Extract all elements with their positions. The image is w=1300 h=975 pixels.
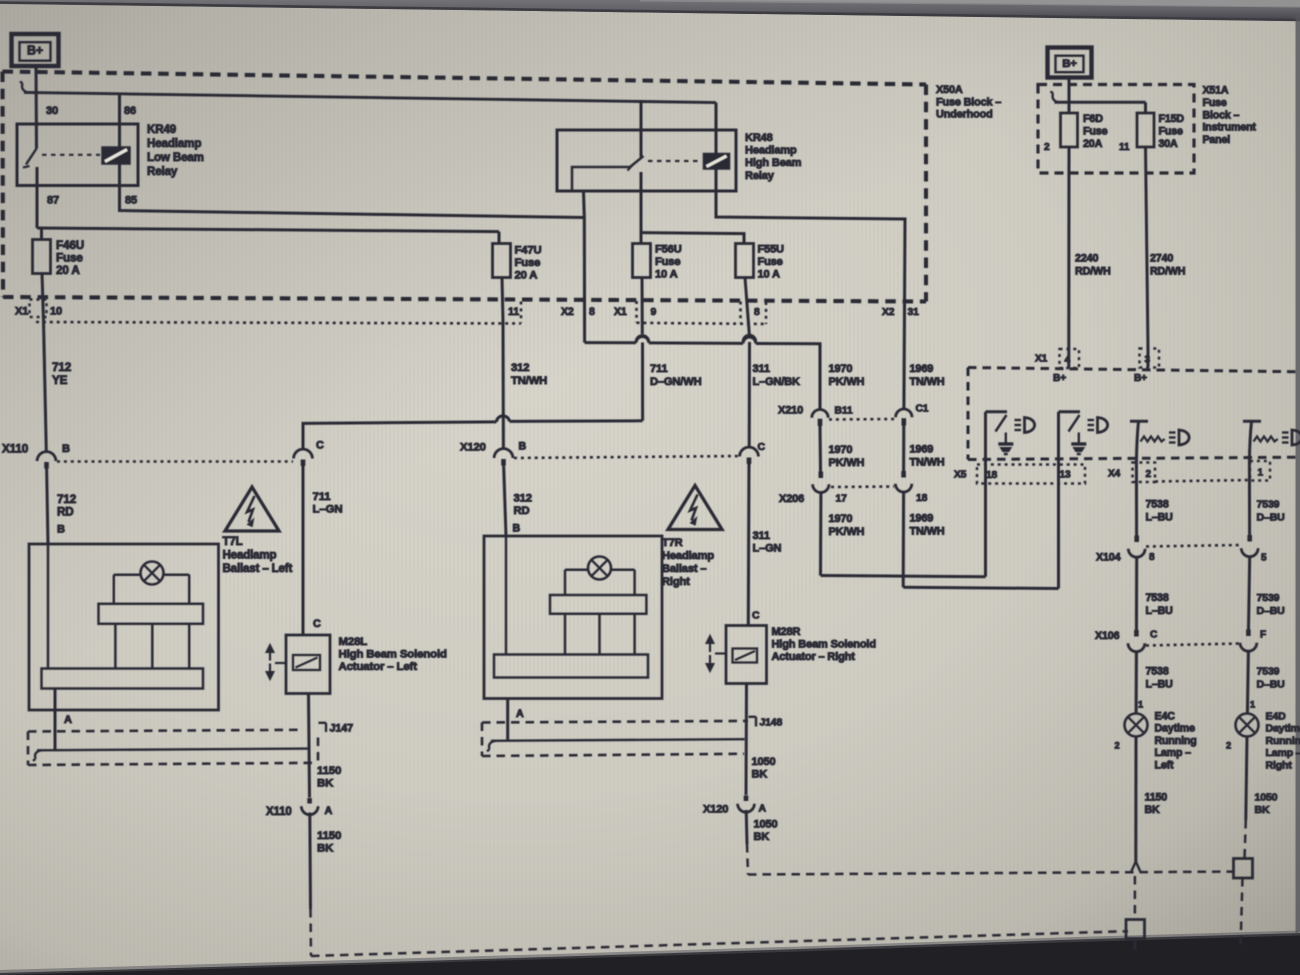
KR48 switched output wire (640, 172, 643, 244)
KR49 coil link dashes (42, 154, 100, 156)
T7R bulb base bar (494, 655, 648, 678)
KR48 coil return wire to X2-31 (716, 169, 905, 409)
wire: fuse feed to F55U (641, 233, 744, 244)
wire 712 RD (47, 467, 48, 544)
svg-text:1150: 1150 (317, 830, 341, 842)
svg-text:F56U: F56U (655, 244, 682, 256)
svg-text:C: C (316, 440, 324, 452)
svg-text:86: 86 (124, 105, 136, 117)
svg-text:X51A: X51A (1203, 85, 1229, 97)
T7L bulb neck (114, 573, 141, 576)
svg-text:A: A (325, 805, 333, 817)
svg-text:Relay: Relay (147, 165, 178, 178)
wire: B+ feed bus with hook (20, 81, 29, 92)
svg-text:X210: X210 (778, 405, 803, 417)
svg-text:1050: 1050 (752, 756, 776, 768)
T7L headlamp ballast left: box (29, 544, 219, 710)
wire 7539 D-BU upper (1248, 461, 1251, 541)
svg-text:BK: BK (1255, 804, 1270, 816)
svg-text:B+: B+ (1053, 373, 1066, 384)
svg-text:F47U: F47U (515, 245, 542, 257)
svg-text:Relay: Relay (745, 170, 775, 182)
svg-text:High Beam: High Beam (745, 157, 802, 169)
svg-text:8: 8 (754, 307, 760, 318)
T7R bulb neck (565, 568, 589, 571)
wire 312 RD (504, 464, 506, 536)
wire: B+ down to relay KR49 pin 30 (35, 66, 39, 149)
svg-text:Fuse: Fuse (1203, 97, 1227, 109)
svg-text:B: B (57, 524, 65, 536)
wire 1969 TN/WH middle (902, 426, 905, 477)
connector X120 pin A (744, 796, 749, 802)
svg-text:2: 2 (1115, 741, 1120, 751)
svg-text:X1: X1 (614, 306, 627, 318)
dashed ground routing to E4C splice (311, 931, 1128, 956)
svg-text:RD: RD (514, 505, 530, 517)
svg-text:1: 1 (1138, 700, 1143, 710)
svg-text:L–GN: L–GN (753, 543, 782, 555)
T7R headlamp ballast right: box (484, 536, 662, 699)
battery B+ terminal (right) (1048, 48, 1092, 78)
svg-text:85: 85 (125, 195, 137, 207)
wire 7539 D-BU middle (1248, 557, 1249, 636)
svg-text:E4C: E4C (1155, 711, 1176, 723)
svg-text:BK: BK (1145, 804, 1161, 816)
splice J148 (749, 716, 757, 718)
svg-text:TN/WH: TN/WH (910, 376, 945, 388)
M28L solenoid (293, 655, 320, 670)
M28R solenoid (733, 649, 758, 663)
M28L ground wire 1150 BK (309, 694, 310, 798)
svg-text:1050: 1050 (1255, 792, 1278, 804)
wire 311 L-GN/BK from X1-8 (743, 335, 756, 341)
wire 7538 L-BU upper (1135, 462, 1138, 541)
svg-text:1969: 1969 (910, 363, 934, 375)
KR49 pin 87 wire (36, 167, 39, 228)
svg-text:2: 2 (1044, 142, 1050, 153)
svg-text:Panel: Panel (1203, 134, 1231, 146)
svg-text:1: 1 (1258, 468, 1264, 479)
svg-text:F15D: F15D (1159, 113, 1185, 125)
module low beam driver left (984, 412, 987, 577)
fuse F15D 30A (1137, 113, 1154, 147)
fuse F6D 20A (1061, 113, 1078, 147)
svg-text:E4D: E4D (1266, 711, 1287, 723)
svg-text:X106: X106 (1095, 630, 1120, 642)
T7R internal feed wire (505, 536, 508, 655)
svg-text:712: 712 (57, 493, 77, 506)
KR48 coil link dashes (648, 160, 700, 162)
svg-text:Headlamp: Headlamp (223, 550, 277, 562)
svg-text:10 A: 10 A (758, 268, 780, 280)
svg-text:Fuse: Fuse (56, 251, 83, 264)
splice J147 (319, 722, 327, 724)
wire 1150 BK from E4C (1134, 737, 1137, 863)
svg-text:Fuse: Fuse (1083, 125, 1108, 137)
svg-text:Fuse: Fuse (1159, 125, 1183, 137)
svg-text:7538: 7538 (1146, 499, 1169, 511)
svg-text:D–BU: D–BU (1257, 605, 1285, 617)
fuse F55U 10A (736, 244, 754, 278)
svg-text:9: 9 (651, 306, 657, 318)
svg-text:B+: B+ (1134, 373, 1147, 384)
svg-text:A: A (516, 708, 524, 720)
svg-text:X120: X120 (703, 804, 728, 816)
svg-text:Running: Running (1266, 735, 1300, 747)
svg-text:87: 87 (47, 195, 59, 207)
svg-text:C1: C1 (916, 404, 929, 415)
svg-text:X4: X4 (1108, 469, 1121, 480)
svg-text:711: 711 (650, 363, 668, 375)
svg-text:TN/WH: TN/WH (910, 526, 945, 538)
M28L high beam solenoid actuator left: box (286, 635, 330, 694)
ground distribution dashed box left (28, 730, 299, 732)
M28L linkage arrow (269, 650, 271, 661)
M28R ground wire 1050 BK (745, 684, 749, 796)
T7L pin A wire (54, 689, 57, 750)
KR49 switch blade pin 30-87 (26, 149, 37, 165)
ground splice square S2 (1126, 920, 1145, 939)
svg-text:Actuator – Left: Actuator – Left (339, 661, 418, 673)
T7R bulb bar upper (550, 595, 646, 614)
X120 dotted pin link B-C (514, 456, 740, 458)
body control module dashed box (967, 368, 970, 460)
svg-text:1: 1 (1250, 700, 1255, 710)
svg-text:PK/WH: PK/WH (829, 376, 865, 388)
module low beam driver right (1057, 412, 1060, 589)
svg-text:Fuse: Fuse (515, 257, 541, 269)
svg-text:X1: X1 (1035, 354, 1048, 365)
ground distribution dashed box right (482, 721, 748, 723)
svg-text:X2: X2 (882, 307, 895, 318)
svg-text:712: 712 (52, 361, 72, 374)
T7L internal feed wire (47, 544, 50, 669)
svg-text:C: C (1150, 630, 1158, 641)
svg-text:C: C (758, 442, 766, 453)
wire 711 horizontal with hop over 312 (510, 419, 643, 423)
svg-text:YE: YE (52, 374, 68, 387)
KR48 switch blade (630, 156, 644, 167)
svg-text:High Beam Solenoid: High Beam Solenoid (772, 639, 876, 651)
wire from X2-8 with hops to 1970 PK/WH (583, 218, 586, 343)
relay KR49 box (17, 124, 138, 186)
svg-text:D–BU: D–BU (1257, 512, 1285, 524)
wire 2240 RD/WH (1067, 147, 1070, 349)
svg-text:X2: X2 (561, 306, 574, 318)
svg-text:18: 18 (986, 470, 998, 481)
svg-text:High Beam Solenoid: High Beam Solenoid (339, 649, 448, 661)
svg-text:11: 11 (508, 306, 519, 318)
wire 1970 to module X5-18 (821, 576, 986, 577)
svg-text:BK: BK (317, 777, 334, 789)
fuse block X51A: dashed border (1038, 85, 1194, 174)
svg-text:1970: 1970 (829, 363, 853, 375)
svg-text:KR48: KR48 (745, 132, 773, 144)
svg-text:311: 311 (753, 363, 770, 375)
svg-text:7539: 7539 (1257, 592, 1280, 604)
svg-text:1150: 1150 (1145, 792, 1168, 804)
svg-text:Ballast –: Ballast – (662, 563, 706, 575)
wire 7538 L-BU middle (1135, 557, 1138, 635)
svg-text:Fuse: Fuse (655, 256, 680, 268)
svg-text:Headlamp: Headlamp (147, 137, 201, 150)
svg-text:F46U: F46U (56, 239, 84, 252)
svg-text:M28R: M28R (772, 626, 801, 638)
svg-text:B: B (519, 441, 527, 453)
svg-text:L–BU: L–BU (1146, 679, 1174, 691)
KR48 coil (704, 154, 730, 170)
svg-text:Actuator – Right: Actuator – Right (772, 651, 856, 663)
svg-text:1050: 1050 (754, 819, 778, 831)
svg-text:X5: X5 (954, 470, 967, 481)
T7L bulb base bar (42, 669, 204, 689)
svg-text:17: 17 (836, 494, 848, 505)
KR48 lower pin wire to X2-8 (582, 191, 586, 218)
ground splice square S1 (1234, 859, 1253, 879)
svg-text:Right: Right (1266, 759, 1293, 771)
module DRL driver left (1130, 420, 1148, 423)
wire 1050 BK from E4D (1246, 737, 1247, 821)
svg-text:KR49: KR49 (147, 123, 177, 136)
svg-text:Lamp –: Lamp – (1266, 747, 1300, 759)
svg-text:BK: BK (754, 831, 770, 843)
svg-text:10 A: 10 A (655, 268, 678, 280)
svg-text:Running: Running (1155, 735, 1197, 747)
wire 1970 PK/WH middle (819, 426, 823, 477)
svg-text:11: 11 (1119, 142, 1130, 153)
svg-text:B+: B+ (27, 44, 43, 58)
svg-text:D–BU: D–BU (1257, 679, 1285, 691)
svg-text:X50A: X50A (936, 84, 963, 96)
wire 711 D-GN/WH from X1-9 (636, 335, 649, 341)
KR49 coil (102, 147, 130, 164)
svg-text:Underhood: Underhood (936, 109, 993, 121)
svg-text:2: 2 (1146, 469, 1152, 480)
svg-text:PK/WH: PK/WH (829, 457, 865, 469)
svg-text:A: A (759, 804, 767, 815)
svg-text:18: 18 (916, 493, 928, 504)
wire 1969 to module X5-13 (903, 587, 1058, 588)
svg-text:10: 10 (50, 306, 62, 318)
svg-text:Headlamp: Headlamp (745, 145, 797, 157)
svg-text:1150: 1150 (317, 765, 341, 777)
svg-text:Lamp –: Lamp – (1155, 747, 1192, 759)
svg-text:31: 31 (908, 307, 920, 318)
M28R high beam solenoid actuator right: box (726, 626, 767, 684)
svg-text:1969: 1969 (910, 444, 934, 456)
svg-text:F6D: F6D (1083, 113, 1103, 125)
svg-text:Headlamp: Headlamp (662, 550, 714, 562)
svg-text:Fuse: Fuse (758, 256, 783, 268)
dashed ground stub to splice square (1134, 876, 1137, 920)
KR48 coil feed wire (715, 103, 718, 154)
svg-text:30: 30 (46, 105, 58, 117)
svg-text:20 A: 20 A (56, 264, 80, 277)
svg-text:RD/WH: RD/WH (1150, 266, 1185, 278)
svg-text:X110: X110 (266, 806, 292, 818)
ground splice arrow E4C (1131, 862, 1140, 872)
svg-text:C: C (313, 618, 321, 630)
svg-text:312: 312 (511, 362, 529, 374)
svg-text:L–BU: L–BU (1146, 512, 1174, 524)
T7R pin A wire (506, 699, 509, 741)
svg-text:13: 13 (1060, 470, 1072, 481)
svg-text:8: 8 (1149, 552, 1155, 563)
svg-text:TN/WH: TN/WH (910, 457, 945, 469)
dashed ground below S1 (1241, 878, 1243, 948)
svg-text:1969: 1969 (910, 513, 934, 525)
svg-text:X104: X104 (1096, 552, 1121, 564)
T7R lamp (588, 557, 611, 580)
svg-text:311: 311 (753, 530, 770, 542)
T7L bulb bar upper (99, 604, 204, 624)
fuse F56U 10A (633, 244, 651, 278)
svg-text:M28L: M28L (339, 636, 368, 648)
svg-text:L–BU: L–BU (1146, 605, 1174, 617)
svg-text:B+: B+ (1062, 58, 1077, 70)
connector X1 pins 10-11 dotted row (36, 322, 521, 324)
svg-text:Ballast – Left: Ballast – Left (223, 563, 293, 575)
svg-text:L–GN/BK: L–GN/BK (753, 376, 801, 388)
svg-text:7538: 7538 (1146, 592, 1169, 604)
wire 7538 L-BU lower (1135, 652, 1138, 714)
svg-text:TN/WH: TN/WH (511, 375, 547, 387)
svg-text:Block –: Block – (1203, 109, 1240, 121)
dashed ground routing to E4D (748, 872, 1233, 875)
wire 1970 PK/WH lower (819, 493, 822, 576)
T7R warning triangle (668, 486, 722, 530)
svg-text:L–GN: L–GN (313, 504, 343, 516)
fuse F46U 20A (37, 228, 499, 232)
svg-text:F55U: F55U (758, 244, 785, 256)
svg-text:30A: 30A (1159, 138, 1179, 150)
X110 dotted pin link B-C (57, 460, 293, 463)
KR49 pin 86 wire (118, 94, 121, 147)
svg-text:7539: 7539 (1257, 499, 1280, 511)
wire 7539 D-BU lower (1247, 651, 1248, 714)
KR49 pin 85 wire down and right (120, 164, 585, 218)
T7L warning triangle (225, 487, 279, 531)
svg-text:312: 312 (514, 493, 532, 505)
svg-text:Left: Left (1155, 759, 1175, 771)
connector X1 pins 9-8 dotted row (635, 301, 638, 323)
svg-text:RD/WH: RD/WH (1075, 266, 1111, 278)
svg-text:2: 2 (1226, 741, 1231, 751)
M28R linkage arrow (709, 641, 711, 652)
svg-text:20 A: 20 A (515, 269, 538, 281)
svg-text:RD: RD (57, 506, 74, 519)
svg-text:Low Beam: Low Beam (147, 151, 204, 164)
svg-text:8: 8 (589, 306, 595, 318)
svg-text:Daytime: Daytime (1155, 723, 1196, 735)
svg-text:T7R: T7R (662, 537, 683, 549)
svg-text:20A: 20A (1083, 138, 1103, 150)
fuse F47U 20A (498, 232, 501, 244)
wire 2740 RD/WH (1146, 147, 1149, 349)
svg-text:C: C (752, 611, 760, 622)
svg-text:1970: 1970 (829, 444, 853, 456)
svg-text:B: B (513, 523, 521, 535)
svg-text:7539: 7539 (1257, 666, 1280, 678)
T7L bulb legs (114, 624, 117, 669)
KR48 pin 30 internal step (572, 167, 630, 190)
svg-text:5: 5 (1261, 553, 1267, 564)
svg-text:PK/WH: PK/WH (829, 526, 865, 538)
svg-text:7538: 7538 (1146, 666, 1169, 678)
wire 312 TN/WH (502, 321, 505, 449)
svg-text:X206: X206 (779, 493, 804, 505)
wire 311 L-GN (747, 463, 751, 626)
svg-text:BK: BK (317, 842, 334, 854)
battery B+ terminal (left) (12, 34, 59, 66)
wire 1969 TN/WH lower (902, 492, 905, 587)
T7R bulb legs (564, 614, 567, 655)
T7L lamp (141, 562, 164, 585)
svg-text:2240: 2240 (1075, 253, 1098, 265)
ground wire T7R pin A to J148 (487, 741, 496, 752)
svg-text:BK: BK (752, 768, 768, 780)
svg-text:T7L: T7L (223, 536, 243, 548)
svg-text:711: 711 (313, 491, 332, 503)
module DRL driver right (1243, 420, 1261, 423)
svg-text:Right: Right (662, 576, 690, 588)
svg-text:Fuse Block –: Fuse Block – (936, 96, 1001, 108)
svg-text:D–GN/WH: D–GN/WH (650, 376, 702, 388)
wire 712 YE (44, 321, 47, 452)
svg-text:B11: B11 (835, 406, 853, 417)
wire 711 L-GN (302, 465, 305, 636)
svg-text:J147: J147 (330, 723, 354, 735)
svg-text:X110: X110 (2, 443, 29, 456)
connector X1 pin 3 (1140, 349, 1160, 368)
X51A feed wire with hook (1068, 78, 1071, 114)
svg-text:1970: 1970 (829, 513, 853, 525)
svg-text:Daytime: Daytime (1266, 723, 1300, 735)
connector X110 pin A (307, 798, 312, 804)
svg-text:2740: 2740 (1150, 253, 1173, 265)
svg-text:J148: J148 (760, 718, 783, 729)
fuse block X50A underhood: dashed border (3, 72, 927, 85)
KR48 feed wire from B+ bus (640, 102, 643, 157)
svg-text:A: A (64, 714, 72, 726)
svg-text:F: F (1260, 630, 1266, 641)
svg-text:X1: X1 (15, 306, 28, 318)
svg-text:X120: X120 (460, 442, 486, 454)
ground wire T7L pin A to J147 (33, 750, 42, 761)
svg-text:B: B (62, 443, 70, 455)
relay KR48 box (557, 130, 736, 191)
svg-text:Instrument: Instrument (1203, 122, 1257, 134)
